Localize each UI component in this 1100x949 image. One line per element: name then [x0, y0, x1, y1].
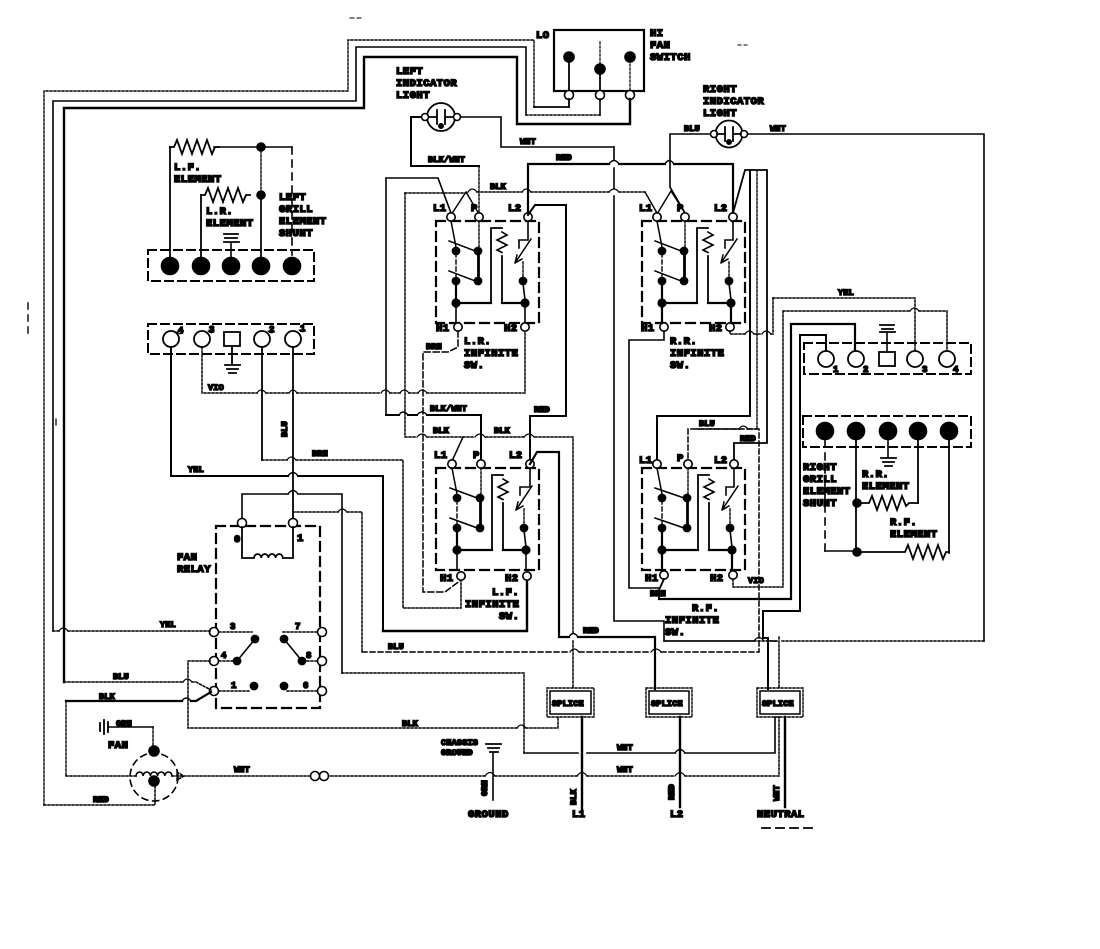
wire BLK/WHT link to L.F. P — [386, 404, 481, 461]
wire block B pin2 down to junctions — [855, 440, 857, 552]
wire R.F. H1 into BRN line — [659, 579, 664, 599]
L.R. terminal L1 — [447, 213, 455, 221]
svg-text:INFINITE: INFINITE — [670, 348, 724, 360]
svg-text:L1: L1 — [434, 450, 448, 462]
fan switch pole contacts — [564, 42, 635, 90]
svg-text:0: 0 — [234, 534, 241, 546]
R.R. switch internals — [655, 221, 737, 323]
svg-text:WHT: WHT — [770, 124, 786, 134]
L.R. terminal L2 — [524, 213, 532, 221]
svg-text:BRN: BRN — [650, 589, 666, 599]
svg-text:LIGHT: LIGHT — [703, 108, 737, 120]
wire VIO connector-3 to L.R. sw H2 — [202, 331, 525, 393]
svg-text:YEL: YEL — [838, 288, 854, 298]
svg-text:2: 2 — [863, 365, 869, 375]
relay contact terminal 6 — [318, 687, 327, 696]
svg-text:BLK: BLK — [494, 426, 511, 436]
svg-text:RED: RED — [556, 153, 572, 163]
SPLICE 1 box — [547, 688, 594, 717]
RIGHT GRILL ELEMENT SHUNT label — [803, 462, 851, 510]
svg-text:BLK/WHT: BLK/WHT — [430, 404, 467, 414]
svg-text:H2: H2 — [504, 323, 518, 335]
R.R. INFINITE SW. box — [639, 203, 745, 372]
svg-text:RIGHT: RIGHT — [803, 462, 837, 474]
svg-text:4: 4 — [953, 365, 959, 375]
L1 terminal lead — [569, 717, 586, 821]
svg-text:1: 1 — [297, 533, 304, 545]
RIGHT INDICATOR LIGHT label — [703, 84, 764, 120]
wire fan switch t2 to left edge — [599, 99, 601, 115]
svg-text:BLK: BLK — [433, 426, 450, 436]
wire WHT bottom route to splice3 — [664, 640, 984, 642]
svg-text:3: 3 — [209, 325, 215, 335]
svg-text:ELEMENT: ELEMENT — [890, 529, 938, 541]
svg-text:ELEMENT: ELEMENT — [803, 486, 851, 498]
wire BLK L.F. wings run to splice1 — [405, 426, 573, 689]
svg-text:SPLICE: SPLICE — [552, 699, 584, 709]
wire L.F. element right lead to junction — [214, 146, 261, 148]
wire vertical link x405 (BLK to BLK) — [404, 193, 406, 437]
LEFT GRILL ELEMENT SHUNT label — [279, 192, 327, 240]
L.F. terminal H2 — [523, 572, 531, 580]
wire splice3 top riser to right connector c1 — [763, 335, 826, 689]
R.F. ELEMENT resistor — [857, 517, 949, 559]
node junction L.R./shunt — [257, 191, 265, 199]
svg-text:RELAY: RELAY — [177, 564, 211, 576]
fan switch terminal 1 — [565, 91, 574, 100]
svg-text:3: 3 — [922, 365, 928, 375]
wire BRN R.F./R.R. H1 line up to right connector c2 — [650, 324, 855, 599]
svg-text:L1: L1 — [639, 455, 653, 467]
svg-text:L2: L2 — [508, 203, 522, 215]
svg-text:SWITCH: SWITCH — [650, 52, 691, 64]
R.R. terminal L2 — [729, 213, 737, 221]
L.F. terminal P — [477, 460, 485, 468]
wire L.R. L1 feed line — [386, 178, 451, 213]
svg-text:FAN: FAN — [108, 740, 128, 752]
svg-text:HI: HI — [650, 28, 664, 40]
svg-text:ELEMENT: ELEMENT — [279, 216, 327, 228]
R.R. terminal L1 — [653, 213, 661, 221]
dash marks below neutral — [762, 827, 812, 829]
svg-text:WHT: WHT — [617, 765, 633, 775]
R.F. terminal L1 — [653, 460, 661, 468]
svg-text:YEL: YEL — [188, 465, 204, 475]
right indicator light lamp — [711, 121, 748, 148]
FAN RELAY box — [177, 526, 320, 708]
svg-text:ELEMENT: ELEMENT — [862, 481, 910, 493]
svg-text:L1: L1 — [433, 203, 447, 215]
wire WHT down to splice3 route — [614, 147, 664, 641]
wire BRN L.R. H1 down-link to L.F. H1 — [423, 331, 461, 592]
svg-text:LO: LO — [536, 30, 550, 42]
node junction shunt/R.F. element — [853, 548, 861, 556]
svg-text:BLK/WHT: BLK/WHT — [428, 155, 465, 165]
L.R. ELEMENT resistor — [201, 188, 254, 230]
svg-text:BLU: BLU — [280, 421, 290, 437]
svg-text:LEFT: LEFT — [396, 66, 423, 78]
svg-text:L.R.: L.R. — [206, 206, 233, 218]
relay contacts bottom row — [219, 682, 317, 691]
relay contact arms left — [219, 632, 259, 665]
svg-text:SHUNT: SHUNT — [803, 498, 837, 510]
svg-text:L2: L2 — [509, 450, 523, 462]
svg-text:RED: RED — [534, 405, 550, 415]
wire fan relay coil-0 left run to WHT — [242, 494, 342, 673]
svg-text:8: 8 — [306, 651, 312, 661]
R.R. terminal H2 — [726, 323, 734, 331]
svg-text:H1: H1 — [645, 573, 659, 585]
fan switch terminal 2 — [596, 91, 605, 100]
wire WHT fan line across bottom — [66, 717, 779, 781]
NEUTRAL terminal lead — [757, 717, 805, 821]
svg-text:BRN: BRN — [312, 449, 328, 459]
relay contact arms right — [280, 632, 317, 665]
svg-text:SW.: SW. — [665, 627, 685, 639]
wire BLU left edge to relay 1 — [64, 672, 211, 690]
svg-text:INFINITE: INFINITE — [665, 615, 719, 627]
svg-text:L2: L2 — [714, 203, 728, 215]
wire dotted neutral link line y641 — [664, 637, 779, 689]
wire R.R. H1 to left-down BRN route — [629, 331, 664, 588]
svg-text:INFINITE: INFINITE — [465, 599, 519, 611]
SPLICE 2 box — [646, 688, 692, 717]
relay contact terminal 3 — [210, 628, 219, 637]
wire heavy L.F. H2 bottom run — [383, 580, 527, 631]
svg-text:L1: L1 — [639, 203, 653, 215]
R.R. terminal H1 — [660, 323, 668, 331]
svg-text:BRN: BRN — [426, 342, 442, 352]
L.F. terminal H1 — [457, 572, 465, 580]
L.R. terminal H1 — [454, 323, 462, 331]
svg-text:L.F.: L.F. — [492, 587, 519, 599]
svg-text:H1: H1 — [436, 323, 450, 335]
svg-text:NEUTRAL: NEUTRAL — [757, 809, 805, 821]
R.R. ELEMENT resistor — [857, 469, 918, 510]
svg-text:SPLICE: SPLICE — [651, 699, 683, 709]
L.R. terminal H2 — [521, 323, 529, 331]
node junction L.F./shunt — [257, 143, 265, 151]
relay contact terminal 8 — [318, 657, 327, 666]
wire R.F. element right lead up to block B pin5 — [948, 440, 950, 553]
GRN fan capacitor symbol — [100, 719, 153, 748]
L.F. ELEMENT resistor — [170, 140, 222, 186]
L.F. terminal L1 — [448, 460, 456, 468]
wire junction to shunt corner — [261, 146, 292, 148]
L.R. wings diagonals — [451, 192, 479, 215]
svg-text:INDICATOR: INDICATOR — [396, 78, 457, 90]
svg-text:SPLICE: SPLICE — [762, 699, 794, 709]
SPLICE 3 box — [757, 688, 803, 717]
R.R. terminal P — [681, 213, 689, 221]
svg-text:YEL: YEL — [160, 620, 176, 630]
svg-text:SHUNT: SHUNT — [279, 228, 313, 240]
scan artifact dashes left margin — [27, 303, 29, 333]
R.F. INFINITE SW. box — [639, 453, 745, 639]
svg-text:GRILL: GRILL — [803, 474, 837, 486]
wire VIO riser to right connector c4 — [733, 311, 947, 587]
wire BRN connector-2 down and right — [262, 347, 461, 608]
svg-text:BLU: BLU — [388, 642, 404, 652]
wire L.F. element left lead — [169, 147, 171, 258]
ground symbol below block B pin 3 — [881, 440, 896, 466]
svg-text:L1: L1 — [572, 809, 586, 821]
svg-text:SW.: SW. — [499, 611, 519, 623]
svg-text:GRN: GRN — [480, 780, 490, 796]
CHASSIS GROUND symbol — [441, 738, 501, 800]
wire L.R. element left lead — [200, 195, 202, 258]
svg-text:L2: L2 — [714, 455, 728, 467]
wire fan switch t3 to left edge (thick) — [64, 57, 630, 682]
wire YEL connector-4 to L.F. sw H2 line — [171, 347, 383, 631]
svg-text:INFINITE: INFINITE — [464, 348, 518, 360]
svg-text:L.R.: L.R. — [464, 336, 491, 348]
relay coil terminal 0 — [238, 519, 247, 528]
svg-text:ELEMENT: ELEMENT — [206, 218, 254, 230]
RIGHT connector block A (pins 1 2 sq 3 4) — [804, 343, 971, 375]
ground symbol above connector dot 3 — [224, 234, 239, 258]
svg-text:FAN: FAN — [650, 40, 670, 52]
svg-text:L2: L2 — [670, 809, 684, 821]
svg-text:H2: H2 — [505, 573, 519, 585]
L.R. switch internals — [449, 221, 531, 323]
left indicator light lamp — [422, 103, 461, 131]
svg-text:CHASSIS: CHASSIS — [441, 738, 478, 748]
svg-text:6: 6 — [303, 681, 309, 691]
svg-text:VIO: VIO — [208, 383, 224, 393]
wire BLK distribution line (L.R./R.R. wings) — [405, 182, 645, 193]
svg-text:4: 4 — [221, 651, 227, 661]
node junction shunt/R.R. element — [853, 499, 861, 507]
ground symbol above right connector square — [880, 325, 895, 352]
svg-text:WHT: WHT — [772, 785, 782, 801]
svg-text:LIGHT: LIGHT — [396, 90, 430, 102]
svg-text:WHT: WHT — [520, 137, 536, 147]
svg-text:BLK: BLK — [490, 182, 507, 192]
wire RED L.R. L2 to L.F. L2 (right loop) — [528, 205, 566, 461]
wire junction vertical — [260, 147, 262, 258]
L.R. INFINITE SW. box — [433, 203, 539, 372]
relay contact terminal 4 — [210, 657, 219, 666]
HI FAN SWITCH box — [536, 28, 691, 91]
svg-text:BLU: BLU — [684, 124, 700, 134]
svg-text:L.F.: L.F. — [174, 162, 201, 174]
svg-text:BLU: BLU — [699, 419, 715, 429]
svg-text:H2: H2 — [710, 573, 724, 585]
svg-text:4: 4 — [178, 326, 184, 336]
svg-text:VIO: VIO — [748, 576, 764, 586]
svg-text:RIGHT: RIGHT — [703, 84, 737, 96]
svg-text:GRILL: GRILL — [279, 204, 313, 216]
R.F. terminal H2 — [729, 571, 737, 579]
svg-text:1: 1 — [833, 365, 839, 375]
svg-text:WHT: WHT — [234, 765, 250, 775]
left control connector block (pins 4 3 sq 2 1) — [148, 324, 314, 354]
wire R.R. element right lead up to block B pin4 — [917, 440, 919, 503]
svg-text:FAN: FAN — [177, 552, 197, 564]
svg-text:GROUND: GROUND — [441, 748, 473, 758]
svg-text:SW.: SW. — [670, 360, 690, 372]
wire YEL left edge to relay 3 — [53, 620, 210, 631]
wire riser x750 to R.F. L1 — [657, 170, 750, 461]
svg-text:RED: RED — [93, 795, 109, 805]
svg-text:GROUND: GROUND — [468, 809, 509, 821]
svg-text:R.R.: R.R. — [670, 336, 697, 348]
svg-text:R.F.: R.F. — [890, 517, 917, 529]
relay contact terminal 7 — [318, 628, 327, 637]
svg-text:RED: RED — [667, 784, 677, 800]
wire right grill shunt (dashed) to junction — [824, 440, 826, 551]
wire riser x757 to R.F. P line — [688, 170, 757, 429]
svg-text:WHT: WHT — [617, 743, 633, 753]
R.F. terminal P — [684, 460, 692, 468]
svg-text:ELEMENT: ELEMENT — [174, 174, 222, 186]
L2 terminal lead — [667, 717, 684, 821]
left element connector block (5 pins) — [148, 250, 314, 281]
svg-text:R.F.: R.F. — [692, 603, 719, 615]
svg-text:H1: H1 — [641, 323, 655, 335]
R.F. switch internals — [655, 468, 738, 570]
wire fan relay coil-1 to BLU run — [293, 512, 362, 652]
L.R. terminal P — [475, 213, 483, 221]
wire relay 4 to BLK run to splice1 — [188, 661, 558, 729]
relay coil terminal 1 — [289, 519, 298, 528]
wire YEL to right connector c3 — [773, 288, 915, 352]
wire R.R. H2 to YEL riser — [730, 298, 773, 334]
L.F. switch internals — [450, 468, 532, 570]
wire RED left edge to fan bottom — [44, 783, 155, 805]
wire RED L.F. L2 to splice2 — [530, 452, 655, 689]
wire vertical link x386 (L1 line to BLK/WHT of L.F.) — [385, 178, 387, 415]
wire RED L1-feed from L.R. L2 to R.R. L2 — [528, 153, 733, 217]
L.F. INFINITE SW. box — [434, 450, 539, 623]
wire left grill shunt (dashed) — [291, 147, 293, 255]
svg-text:3: 3 — [230, 622, 236, 632]
wire BLU run to R.F. sw P — [362, 419, 759, 652]
LEFT INDICATOR LIGHT label — [396, 66, 457, 102]
RIGHT element connector block B (5 pins) — [803, 416, 971, 447]
wire fan switch t1 to left edge (dotted loop) — [534, 99, 569, 107]
wire BLK left edge to relay 1 — [66, 692, 211, 775]
svg-text:P: P — [677, 453, 684, 465]
wire BLU connector-1 to fan relay coil 1 — [292, 347, 294, 519]
R.R. wings diagonals — [645, 191, 685, 214]
fan switch terminal 3 — [626, 91, 635, 100]
svg-text:RED: RED — [583, 626, 599, 636]
wire WHT lower splice link — [617, 765, 633, 775]
R.F. terminal H1 — [660, 571, 668, 579]
L.F. terminal L2 — [526, 460, 534, 468]
svg-text:R.R.: R.R. — [862, 469, 889, 481]
svg-text:1: 1 — [300, 324, 306, 334]
GROUND terminal lead — [468, 780, 509, 821]
svg-text:BLK: BLK — [569, 788, 579, 805]
svg-text:7: 7 — [295, 622, 301, 632]
svg-text:1: 1 — [231, 681, 237, 691]
FAN motor — [108, 740, 178, 801]
relay coil — [242, 527, 293, 558]
R.F. terminal L2 — [730, 460, 738, 468]
relay contact terminal 1 (bottom) — [210, 687, 219, 696]
svg-text:2: 2 — [269, 325, 275, 335]
svg-text:SW.: SW. — [464, 360, 484, 372]
svg-text:H2: H2 — [709, 323, 723, 335]
ground symbol below connector square — [225, 346, 240, 373]
svg-text:H1: H1 — [440, 573, 454, 585]
svg-text:INDICATOR: INDICATOR — [703, 96, 764, 108]
svg-text:BLU: BLU — [113, 672, 129, 682]
wire RED R.R. L2 to R.F. L2 — [733, 170, 767, 461]
